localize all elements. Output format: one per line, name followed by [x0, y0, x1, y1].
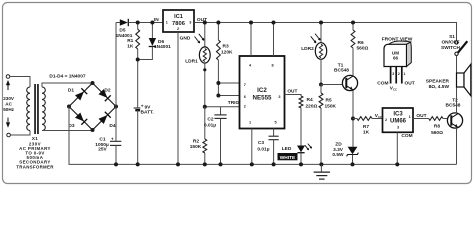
svg-text:1N4001: 1N4001 — [154, 44, 171, 50]
svg-text:IC1: IC1 — [174, 14, 183, 20]
svg-text:1: 1 — [409, 115, 411, 119]
svg-text:3: 3 — [397, 125, 399, 129]
svg-text:560Ω: 560Ω — [431, 130, 443, 136]
svg-text:D6: D6 — [158, 39, 164, 45]
svg-text:BC548: BC548 — [446, 103, 461, 109]
svg-text:CC: CC — [378, 115, 382, 119]
svg-text:D5: D5 — [119, 28, 125, 34]
svg-text:C2: C2 — [207, 116, 213, 122]
svg-text:25V: 25V — [98, 147, 107, 153]
svg-text:R7: R7 — [363, 124, 369, 130]
svg-text:BATT.: BATT. — [141, 109, 154, 115]
svg-text:2: 2 — [385, 118, 387, 122]
svg-text:220Ω: 220Ω — [306, 104, 318, 110]
svg-text:D1: D1 — [68, 88, 74, 94]
svg-text:IC2: IC2 — [257, 87, 267, 94]
svg-text:BC548: BC548 — [334, 68, 349, 74]
svg-text:GND: GND — [180, 35, 191, 41]
svg-text:R3: R3 — [223, 43, 229, 49]
svg-text:ON/OFF: ON/OFF — [441, 40, 459, 46]
svg-text:0.5W: 0.5W — [332, 152, 344, 158]
svg-text:1N4001: 1N4001 — [116, 33, 133, 39]
svg-text:1: 1 — [249, 120, 251, 124]
svg-text:T2: T2 — [452, 97, 458, 103]
svg-text:5: 5 — [274, 120, 276, 124]
svg-text:T1: T1 — [338, 62, 344, 68]
svg-text:LED: LED — [282, 146, 292, 152]
svg-text:COM: COM — [401, 133, 412, 139]
svg-text:IC3: IC3 — [393, 112, 403, 118]
svg-text:SPEAKER: SPEAKER — [426, 78, 450, 84]
svg-text:2: 2 — [177, 27, 179, 31]
svg-text:AC: AC — [5, 102, 12, 107]
svg-text:120K: 120K — [221, 50, 233, 56]
svg-text:150K: 150K — [190, 144, 202, 150]
svg-text:C1: C1 — [99, 137, 105, 143]
svg-text:3: 3 — [392, 72, 394, 76]
svg-text:2: 2 — [244, 105, 246, 109]
svg-text:D2: D2 — [104, 88, 110, 94]
svg-text:50Hz: 50Hz — [3, 107, 14, 112]
svg-text:R4: R4 — [307, 97, 313, 103]
svg-text:7806: 7806 — [172, 21, 186, 27]
svg-text:0.01µ: 0.01µ — [257, 146, 269, 152]
svg-text:LDR1: LDR1 — [185, 59, 198, 65]
svg-text:0.01µ: 0.01µ — [204, 122, 216, 128]
svg-text:COM: COM — [377, 80, 388, 86]
svg-text:D1-D4 = 1N4007: D1-D4 = 1N4007 — [49, 73, 85, 79]
svg-text:IN: IN — [154, 17, 159, 23]
svg-text:R8: R8 — [434, 124, 440, 130]
svg-text:D4: D4 — [109, 123, 115, 129]
svg-text:6: 6 — [244, 95, 246, 99]
svg-text:TRANSFORMER: TRANSFORMER — [16, 164, 54, 169]
svg-text:S1: S1 — [449, 34, 455, 40]
svg-text:R5: R5 — [326, 98, 332, 104]
svg-text:7: 7 — [244, 83, 246, 87]
svg-text:150K: 150K — [325, 104, 337, 110]
svg-text:UM66: UM66 — [390, 119, 407, 125]
svg-text:66: 66 — [393, 56, 399, 61]
svg-text:R6: R6 — [358, 40, 364, 46]
svg-text:8: 8 — [271, 63, 273, 67]
svg-text:OUT: OUT — [405, 81, 415, 87]
svg-text:1: 1 — [404, 72, 406, 76]
svg-text:OUT: OUT — [287, 88, 297, 94]
svg-text:8Ω, 4.5W: 8Ω, 4.5W — [429, 84, 450, 90]
svg-text:CC: CC — [393, 88, 397, 92]
svg-text:3: 3 — [278, 95, 280, 99]
svg-text:1K: 1K — [363, 130, 370, 136]
svg-text:LDR2: LDR2 — [301, 46, 314, 52]
svg-text:+: + — [111, 136, 114, 141]
svg-text:230V: 230V — [3, 96, 15, 101]
svg-text:1K: 1K — [127, 43, 134, 49]
svg-text:TRIG: TRIG — [228, 100, 240, 106]
svg-text:R1: R1 — [127, 38, 133, 44]
svg-text:3.3V: 3.3V — [333, 147, 344, 153]
svg-text:3: 3 — [189, 20, 191, 24]
svg-text:WHITE: WHITE — [280, 155, 296, 161]
svg-text:SWITCH: SWITCH — [441, 45, 460, 51]
svg-text:2: 2 — [398, 72, 400, 76]
svg-text:UM: UM — [392, 50, 399, 55]
svg-text:C3: C3 — [258, 140, 264, 146]
svg-text:+: + — [141, 104, 144, 109]
svg-text:560Ω: 560Ω — [357, 45, 369, 51]
svg-text:R2: R2 — [193, 139, 199, 145]
svg-text:ZD: ZD — [335, 141, 342, 147]
svg-text:1: 1 — [166, 20, 168, 24]
svg-text:NE555: NE555 — [253, 95, 272, 102]
